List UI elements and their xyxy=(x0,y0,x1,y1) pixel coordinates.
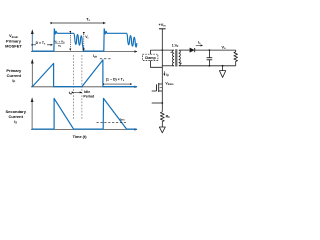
wire output top xyxy=(195,49,236,51)
dashed guide line 1 (Is reaches zero) xyxy=(73,55,75,120)
node cap bottom xyxy=(209,65,211,67)
axis secondary plot y xyxy=(31,100,33,130)
axis primary plot x xyxy=(31,86,137,88)
tw measure arrow xyxy=(74,91,82,93)
transformer phase dot primary xyxy=(171,52,172,53)
waveform secondary current xyxy=(32,98,136,129)
wire primary top xyxy=(151,49,175,51)
diode D1 xyxy=(190,48,195,52)
waveform primary current xyxy=(32,60,136,87)
svg-text:Period: Period xyxy=(83,94,94,98)
axis primary plot y xyxy=(31,61,33,87)
waveform Vdrain xyxy=(32,29,136,51)
transformer phase dot secondary xyxy=(180,63,181,64)
svg-text:Time (t): Time (t) xyxy=(73,134,88,139)
wire main left rail xyxy=(161,29,163,112)
axis Vdrain plot y xyxy=(31,31,33,52)
dashed Iavg line xyxy=(97,121,127,123)
wire clamp top stub xyxy=(150,50,152,54)
measure arrow (1-D)Ts xyxy=(105,83,132,85)
wire clamp bottom stub xyxy=(151,60,163,67)
transformer secondary winding xyxy=(179,50,181,66)
node ground stub xyxy=(222,65,224,67)
transformer primary winding xyxy=(173,50,175,66)
ground output xyxy=(222,66,224,71)
node primary top junction xyxy=(162,49,164,51)
svg-text:Current: Current xyxy=(8,114,23,119)
measure arrow Vr xyxy=(83,34,85,50)
wire primary bottom xyxy=(162,65,174,67)
label Ip arrow on drain wire xyxy=(163,71,165,75)
axis Vdrain plot x xyxy=(31,51,137,53)
svg-text:MOSFET: MOSFET xyxy=(5,43,22,48)
load resistor RL xyxy=(234,50,238,66)
Ts measure arrow xyxy=(53,22,105,24)
dashed guide line 2 (end of idle period) xyxy=(81,55,83,120)
svg-text:(1 − D) × Ts: (1 − D) × Ts xyxy=(106,78,125,83)
svg-text:Vo: Vo xyxy=(221,45,226,50)
axis secondary plot x xyxy=(31,128,137,130)
measure arrow VF+Vo xyxy=(69,33,71,51)
clamp box xyxy=(143,54,158,60)
wire sense tap xyxy=(152,102,163,104)
dashed peak line xyxy=(100,58,112,60)
wire secondary top xyxy=(179,49,190,51)
transformer core xyxy=(175,49,177,66)
svg-text:Clamp: Clamp xyxy=(145,56,157,60)
node cap top xyxy=(209,49,211,51)
capacitor C1 xyxy=(208,50,210,58)
ground primary xyxy=(159,127,165,133)
D x Ts annotation xyxy=(33,44,36,46)
svg-text:+Vin: +Vin xyxy=(159,23,166,28)
resistor Rs xyxy=(160,112,164,127)
wire output bottom rail xyxy=(179,65,236,67)
svg-text:Current: Current xyxy=(7,73,22,78)
transistor Q1 MOSFET xyxy=(159,83,163,85)
